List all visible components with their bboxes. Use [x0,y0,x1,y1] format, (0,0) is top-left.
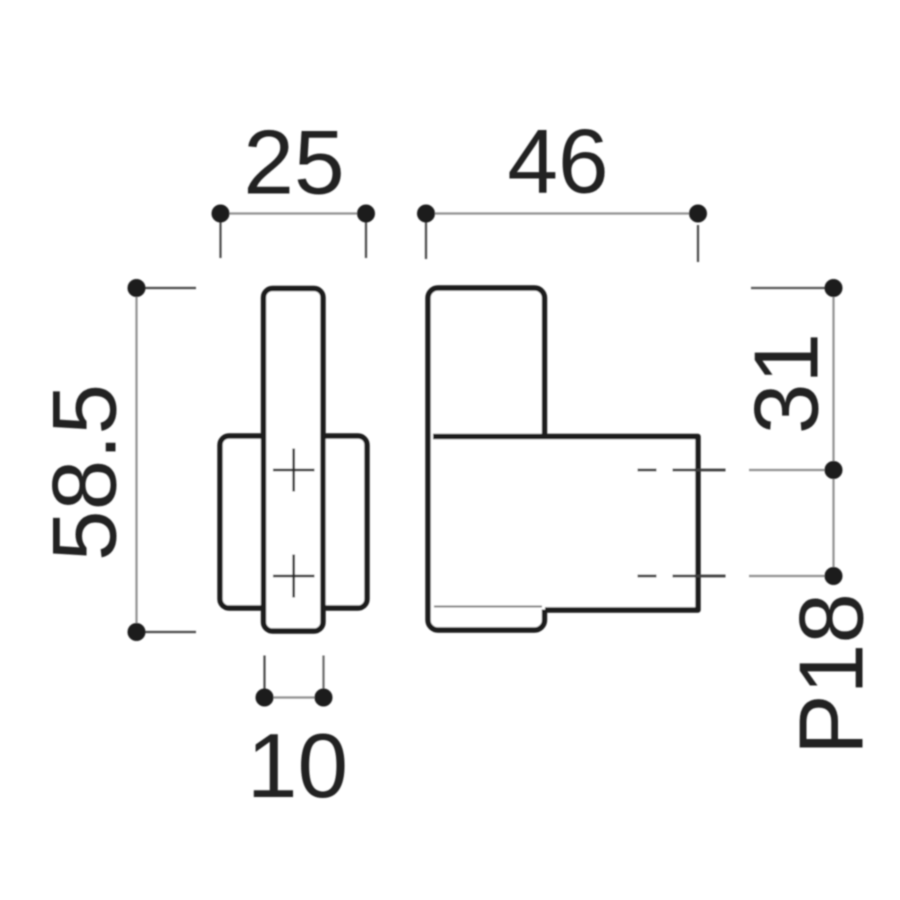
dim 25 line [221,212,367,214]
dim 10 left tick [263,656,265,691]
center line upper dashes [638,469,726,472]
dim 58.5 top extension [137,287,197,289]
svg-text:25: 25 [243,113,344,214]
dim 10 right dot [315,689,333,707]
dim 46 right dot [689,205,707,223]
dim 31/P18 middle dot [825,461,843,479]
dim 31 top dot [825,279,843,297]
front view mounting plate [220,436,367,608]
svg-text:31: 31 [737,333,838,434]
dim 58.5 bottom dot [128,623,146,641]
dim 31 top extension [751,287,834,289]
dim 58.5 bottom extension [137,631,197,633]
screw hole cross lower [273,555,315,598]
svg-text:10: 10 [247,716,348,817]
dim 25 left tick [219,222,221,258]
dim 46 left tick [425,222,427,259]
side view backplate [428,288,545,630]
front view hook bar [264,289,324,632]
screw hole cross upper [273,449,315,492]
side view hook body outline [433,437,698,611]
dim 58.5 top dot [128,279,146,297]
center line lower dashes [638,575,726,578]
svg-text:58.5: 58.5 [34,384,135,561]
center line lower extension [749,575,834,577]
dim 25 right dot [357,205,375,223]
svg-text:P18: P18 [782,593,883,755]
dim 58.5 line [135,288,137,632]
body/backplate joint edge [434,606,542,608]
svg-text:46: 46 [507,112,608,213]
side view hook body fill [433,437,697,610]
dim 10 right tick [322,656,324,691]
dim 46 right tick [697,225,699,262]
dim 25 right tick [365,222,367,258]
dim 25 left dot [212,205,230,223]
dim P18 bottom dot [825,567,843,585]
dim 46 left dot [417,205,435,223]
center line upper extension [749,469,834,471]
dim 10 left dot [256,689,274,707]
dim 31/P18 vertical line [832,288,834,576]
dim 46 line [426,212,698,214]
dim 10 line [265,696,324,698]
